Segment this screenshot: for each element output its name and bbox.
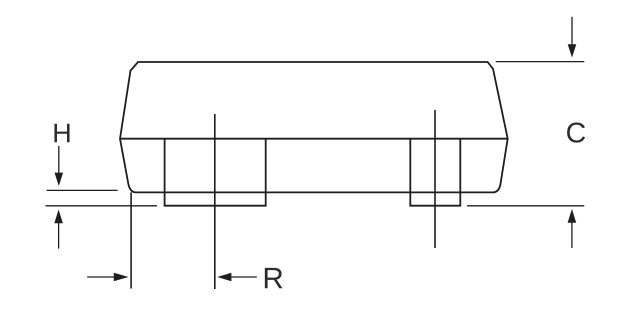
body-edge extension line (bottom left vertical) [130,192,132,288]
left lead center line [214,114,216,289]
arrow down (H) [55,146,64,186]
H upper extension line (body bottom level) [47,189,118,191]
mold parting line [120,138,508,140]
arrow down (C, top right) [568,17,577,58]
package body outline [120,62,508,192]
C top extension line (package top level) [496,61,585,63]
arrow up (H, below seating plane) [54,210,63,249]
arrow up (C, bottom right) [568,209,577,248]
left terminal (lead) [165,139,266,206]
right lead center line [434,110,436,248]
right terminal (lead) [410,139,460,206]
H lower extension line (seating plane, left) [46,205,158,207]
label R [265,268,283,288]
label C [567,123,585,143]
seating plane extension line (right) [467,205,584,207]
arrow left (R, pointing at lead center line) [217,273,257,282]
label H [54,124,69,143]
arrow right (R, pointing at body edge line) [87,273,128,282]
